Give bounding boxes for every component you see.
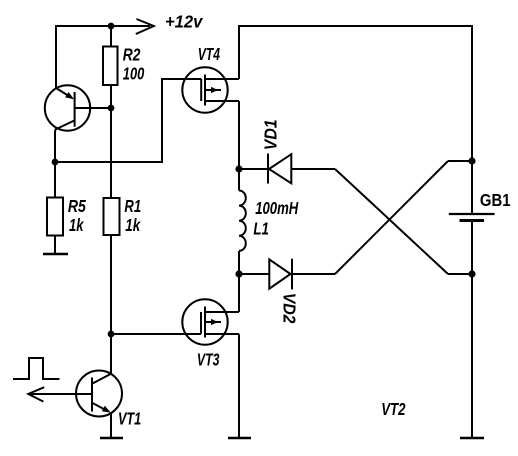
svg-text:GB1: GB1 [480,190,511,210]
svg-text:1k: 1k [69,215,84,235]
svg-text:VD2: VD2 [280,293,300,324]
svg-text:VT4: VT4 [198,44,220,64]
svg-text:VT3: VT3 [197,350,220,370]
svg-text:VT1: VT1 [118,409,141,429]
svg-text:R2: R2 [123,44,141,64]
svg-text:1k: 1k [125,215,141,235]
svg-text:L1: L1 [253,219,269,239]
svg-text:VD1: VD1 [260,119,280,150]
svg-text:100mH: 100mH [255,198,299,218]
svg-text:VT2: VT2 [381,399,405,419]
svg-text:R1: R1 [124,196,141,216]
svg-text:R5: R5 [68,196,87,216]
svg-text:100: 100 [123,64,145,84]
svg-text:+12v: +12v [165,12,203,32]
